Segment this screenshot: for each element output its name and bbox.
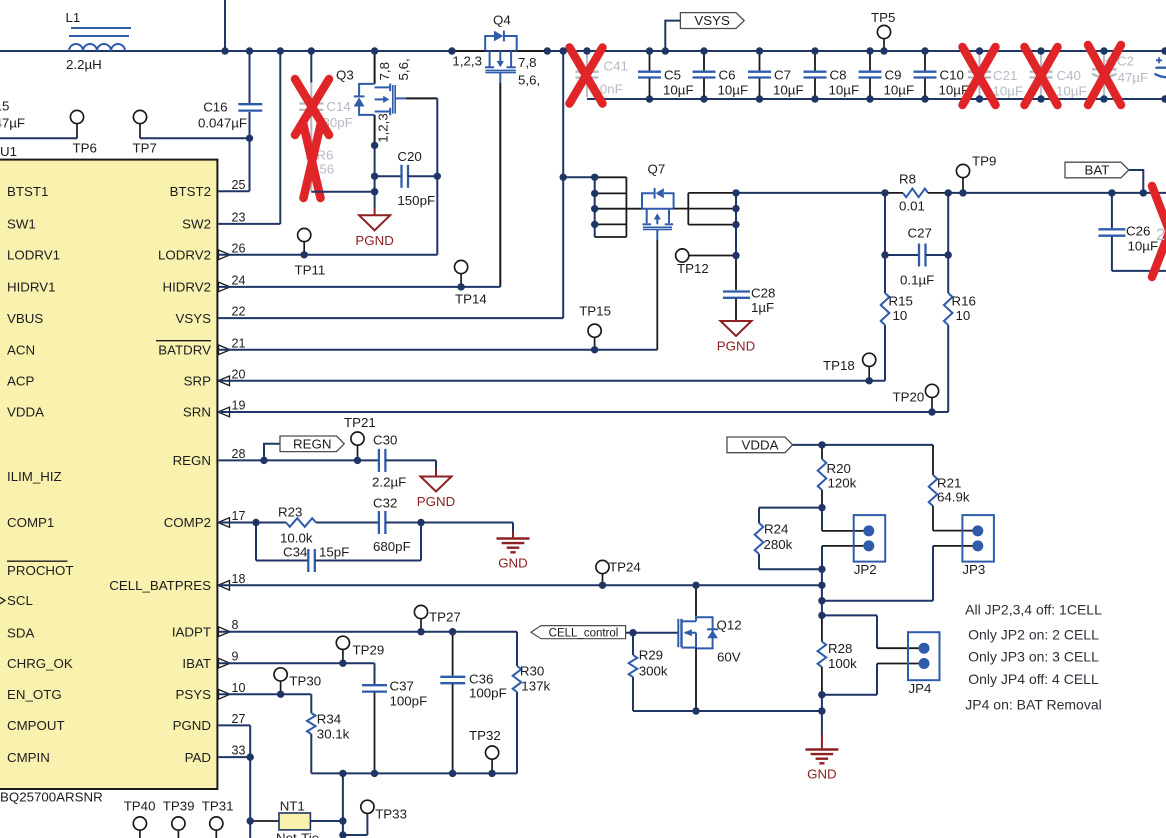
resistor R23 10.0k [278,505,378,546]
svg-text:0.047µF: 0.047µF [0,116,25,131]
svg-text:1µF: 1µF [751,300,774,315]
svg-text:PGND: PGND [355,233,393,248]
svg-text:C15: C15 [0,99,9,114]
svg-text:BATDRV: BATDRV [158,343,211,358]
svg-text:TP6: TP6 [73,141,97,156]
wire: top SW2/inductor bus [0,0,1166,51]
svg-text:2: 2 [1156,225,1165,244]
capacitor C21 10uF (crossed out / DNP) [968,53,1023,99]
transistor Q12 60V [678,585,741,711]
svg-text:Q12: Q12 [717,618,742,633]
svg-text:TP7: TP7 [133,141,157,156]
wire: REGN pin 28 [218,459,378,461]
red X over C14 [295,79,329,135]
svg-text:10µF: 10µF [1056,84,1087,99]
svg-text:SCL: SCL [7,593,33,608]
wire: CELL_control to Q12 gate [626,632,678,634]
wire: BAT net to right edge [948,192,1166,194]
test point TP39 [163,799,195,838]
svg-text:TP5: TP5 [871,10,895,25]
capacitor C40 10uF (crossed out / DNP) [1030,53,1087,99]
jumper JP2 [822,508,885,577]
svg-text:C7: C7 [774,68,791,83]
svg-text:C34: C34 [283,545,307,560]
svg-text:TP11: TP11 [295,263,326,278]
resistor R16 10 [944,255,976,325]
svg-text:GND: GND [498,556,528,571]
svg-text:7,8: 7,8 [518,55,537,70]
svg-text:LODRV1: LODRV1 [7,248,60,263]
test point TP33 [361,800,407,821]
svg-text:GND: GND [807,767,837,782]
svg-text:C30: C30 [373,433,397,448]
svg-text:COMP1: COMP1 [7,515,54,530]
svg-text:TP15: TP15 [579,304,611,319]
resistor R29 300k [629,633,668,711]
test point TP32 [469,728,501,773]
svg-text:TP21: TP21 [344,415,376,430]
wire: IADPT pin 8 [218,631,517,633]
svg-text:BTST2: BTST2 [170,184,211,199]
red X over right-edge cap (partial) [1152,186,1166,277]
note text: cell configuration [965,602,1102,713]
svg-text:PAD: PAD [185,750,211,765]
svg-text:R29: R29 [639,648,663,663]
svg-text:C26: C26 [1126,224,1150,239]
test point TP11 [295,228,326,277]
net flag VSYS [665,13,744,51]
svg-text:TP30: TP30 [289,674,321,689]
svg-text:BAT: BAT [1085,163,1110,178]
svg-text:9: 9 [232,650,239,664]
svg-text:21: 21 [232,336,246,350]
capacitor C26 10uF [1098,193,1166,271]
svg-text:10µF: 10µF [718,83,749,98]
svg-text:TP27: TP27 [429,610,461,625]
test point TP7 [133,110,250,155]
svg-text:C5: C5 [664,68,681,83]
svg-text:24: 24 [232,273,246,287]
svg-text:VDDA: VDDA [742,437,779,452]
svg-text:SDA: SDA [7,626,34,641]
svg-text:C37: C37 [390,679,414,694]
svg-text:C27: C27 [908,226,932,241]
red X over C41 [570,48,603,104]
red X over R6 [304,125,321,198]
test point TP18 [823,353,876,381]
svg-text:SW2: SW2 [182,217,211,232]
svg-text:BTST1: BTST1 [7,184,48,199]
transistor Q3 (low-side FET phase 2) [336,51,437,145]
U1 left-side pin names [0,184,74,765]
svg-text:PGND: PGND [173,718,211,733]
svg-text:ILIM_HIZ: ILIM_HIZ [7,469,62,484]
svg-text:C10: C10 [940,68,964,83]
svg-text:TP29: TP29 [353,643,385,658]
svg-text:TP39: TP39 [163,799,195,814]
test point TP5 [871,10,895,51]
wire: BTST2 pin 25 to C16 to SW bus [218,51,249,191]
svg-text:C6: C6 [719,68,736,83]
test point TP14 [455,260,487,306]
resistor R15 10 [881,255,913,325]
svg-text:SW1: SW1 [7,217,36,232]
resistor R24 280k [755,508,822,570]
wire: Q12 source / R29 bottom rail [633,710,822,712]
svg-text:C8: C8 [830,68,847,83]
svg-text:25: 25 [232,178,246,192]
svg-text:C40: C40 [1057,68,1081,83]
svg-text:ACN: ACN [7,343,35,358]
jumper JP3 [822,515,994,601]
wire: VSYS pin 22 riser to bus [218,51,563,318]
svg-text:0.1µF: 0.1µF [900,273,934,288]
wire: R6 bottom to Q3 source node [311,191,374,193]
test point TP9 [956,154,996,193]
transistor Q7 (BATFET) [642,162,674,350]
capacitor C6 10µF [693,53,749,98]
ground GND (COMP2) [497,523,530,571]
test point TP21 [344,415,376,460]
wire: PSYS pin 10 [218,694,311,713]
svg-text:R8: R8 [899,172,916,187]
svg-text:100pF: 100pF [469,686,507,701]
svg-text:100pF: 100pF [390,694,428,709]
wire: HIDRV2 pin 24 to Q4 gate, with TP14 [218,286,500,288]
svg-text:JP3: JP3 [962,562,985,577]
resistor R34 30.1k [307,712,350,774]
svg-text:All JP2,3,4 off: 1CELL: All JP2,3,4 off: 1CELL [965,602,1102,618]
svg-text:5,6,: 5,6, [396,58,411,80]
wire: BATDRV pin 21 to Q7 gate, with TP15 [218,349,657,351]
svg-text:2.2µF: 2.2µF [372,475,406,490]
svg-text:NT1: NT1 [280,799,305,814]
wire: CELL_BATPRES pin 18 [218,584,822,586]
capacitor C16 0.047uF [198,100,262,131]
capacitor C5 10µF [638,53,694,98]
Q7 source multi-pin bracket (right) [674,193,736,225]
capacitor C32 680pF [373,496,513,555]
op-amp-style IC U1 BQ25700ARSNR (charger IC block) [0,144,217,805]
red X over C21 [963,47,996,105]
wire: PGND pin 27 [218,724,250,726]
capacitor C7 10µF [748,53,804,98]
svg-text:VSYS: VSYS [176,311,212,326]
svg-text:ACP: ACP [7,374,34,389]
capacitor C37 100pF [362,679,427,774]
svg-text:C16: C16 [203,100,227,115]
svg-text:100k: 100k [828,656,857,671]
svg-text:IBAT: IBAT [182,656,211,671]
svg-text:R16: R16 [952,294,976,309]
svg-text:HIDRV1: HIDRV1 [7,280,56,295]
svg-text:27: 27 [232,712,246,726]
svg-text:10µF: 10µF [829,83,860,98]
svg-text:137k: 137k [521,679,550,694]
svg-text:33: 33 [232,744,246,758]
red X over C2 [1088,45,1121,105]
resistor R28 100k [818,615,858,694]
svg-text:CHRG_OK: CHRG_OK [7,656,73,671]
net flag VDDA [727,437,822,453]
svg-text:TP9: TP9 [972,154,996,169]
svg-text:64.9k: 64.9k [937,490,970,505]
wire: bus drop to Q7 drain bracket [563,177,595,237]
wire: Q7 source node vertical [735,193,737,256]
svg-text:C36: C36 [469,672,493,687]
svg-text:CMPIN: CMPIN [7,750,50,765]
svg-text:JP4 on: BAT Removal: JP4 on: BAT Removal [965,697,1101,713]
svg-text:300k: 300k [639,664,668,679]
svg-text:C9: C9 [885,68,902,83]
svg-text:R20: R20 [827,461,851,476]
svg-text:COMP2: COMP2 [164,515,211,530]
capacitor C2 47uF polarized (crossed out / DNP) [1092,53,1148,97]
svg-text:U1: U1 [0,144,17,159]
test point TP6 [0,110,97,155]
svg-text:L1: L1 [66,10,81,25]
wire: VSYS bottom rail [587,98,1166,100]
svg-text:R30: R30 [520,664,544,679]
svg-text:10: 10 [232,681,246,695]
test point TP27 [414,605,460,631]
test point TP12 [676,249,736,276]
red X over C40 [1025,47,1058,105]
svg-text:SRN: SRN [183,405,211,420]
svg-text:10.0k: 10.0k [280,531,313,546]
ground PGND (C28) [721,321,752,336]
svg-text:VDDA: VDDA [7,405,44,420]
svg-text:CMPOUT: CMPOUT [7,718,65,733]
svg-text:20: 20 [232,367,246,381]
svg-text:R21: R21 [937,476,961,491]
svg-text:10µF: 10µF [663,83,694,98]
wire: PGND/PAD column to net-tie [249,725,251,838]
svg-text:JP4: JP4 [909,681,932,696]
svg-text:Q3: Q3 [336,68,354,83]
svg-text:Only JP2 on: 2 CELL: Only JP2 on: 2 CELL [968,627,1099,643]
svg-text:120k: 120k [828,476,857,491]
svg-text:22: 22 [232,305,246,319]
svg-text:TP40: TP40 [124,799,156,814]
wire: SRN pin 19 to R16, with TP20 [218,325,948,412]
svg-text:PGND: PGND [417,494,455,509]
resistor R8 0.01 [885,172,948,214]
wire: SW2 pin 23 riser to bus [218,223,280,225]
capacitor C9 10µF [859,53,915,98]
svg-text:C32: C32 [373,496,397,511]
wire: analog gnd drop to TP33 [343,773,368,835]
wire: VDDA to R21 [822,444,933,446]
test point TP24 [596,560,641,586]
svg-text:28: 28 [232,447,246,461]
wire: Q7 source to R8 [736,192,885,194]
capacitor C8 10µF [804,53,860,98]
net flag REGN [264,436,344,460]
wire: Q3 source node [374,145,376,191]
svg-text:1,2,3: 1,2,3 [452,54,482,69]
svg-text:C20: C20 [397,149,421,164]
resistor R30 137k [513,632,551,774]
svg-text:R15: R15 [889,294,913,309]
capacitor at right edge (partial, polarized) [1155,57,1166,77]
svg-text:LODRV2: LODRV2 [158,248,211,263]
svg-text:REGN: REGN [173,453,211,468]
test point TP31 [202,799,234,838]
svg-text:HIDRV2: HIDRV2 [162,280,211,295]
svg-text:TP33: TP33 [375,807,407,822]
svg-text:IADPT: IADPT [172,624,211,639]
svg-text:TP32: TP32 [469,728,501,743]
svg-text:7,8: 7,8 [377,62,392,81]
svg-text:10: 10 [893,308,908,323]
test point TP15 [579,304,611,350]
svg-text:C41: C41 [604,59,628,74]
svg-text:5,6,: 5,6, [518,73,540,88]
svg-text:C28: C28 [751,286,775,301]
capacitor C10 10µF [914,53,970,98]
svg-text:Only JP4 off: 4 CELL: Only JP4 off: 4 CELL [968,671,1099,687]
test point TP40 [124,799,156,838]
svg-text:CELL_control: CELL_control [549,628,619,640]
capacitor C20 150pF [375,149,438,208]
capacitor C27 0.1uF [885,193,948,288]
svg-text:0.047µF: 0.047µF [198,116,247,131]
ground PGND (REGN/C30) [417,460,455,509]
resistor R21 64.9k [929,445,970,531]
net flag BAT [1065,162,1143,193]
svg-text:BQ25700ARSNR: BQ25700ARSNR [0,790,103,805]
svg-text:680pF: 680pF [373,539,411,554]
svg-text:47µF: 47µF [1118,70,1149,85]
svg-text:R24: R24 [764,522,788,537]
svg-text:R34: R34 [317,712,341,727]
svg-text:R23: R23 [278,505,302,520]
svg-text:280k: 280k [764,537,793,552]
capacitor C15 (partial, cut at left edge) [0,99,25,131]
wire: R28 bottom to GND node [821,695,823,711]
net-tie NT1 [250,799,343,838]
svg-text:Net-Tie: Net-Tie [276,831,319,838]
wire: PAD pin 33 [218,756,250,758]
svg-text:18: 18 [232,572,246,586]
svg-text:2.2µH: 2.2µH [66,57,102,72]
resistor R6 56 (crossed out / DNP) [307,147,334,192]
transistor Q4 (high-side blocking FET) [452,13,540,88]
svg-text:Q4: Q4 [493,13,511,28]
ground PGND (Q3 source) [355,192,393,248]
capacitor C41 10nF (crossed out / DNP) [576,53,628,97]
wire: IBAT pin 9 [218,663,374,684]
svg-text:JP2: JP2 [854,562,877,577]
test point TP20 [893,384,939,412]
svg-text:30.1k: 30.1k [317,727,350,742]
resistor R20 120k [818,445,857,508]
svg-text:17: 17 [232,509,246,523]
svg-text:150pF: 150pF [397,193,435,208]
wire: LODRV2 pin 26 to Q3 gate, with TP11 [218,98,437,254]
svg-text:10µF: 10µF [993,84,1024,99]
svg-text:10µF: 10µF [773,83,804,98]
svg-text:SRP: SRP [184,374,211,389]
wire: JP2/R24/CELL_BATPRES junction column [821,569,823,615]
svg-text:VBUS: VBUS [7,311,43,326]
svg-text:TP20: TP20 [893,390,925,405]
svg-text:R28: R28 [828,641,852,656]
svg-text:TP24: TP24 [609,560,641,575]
net flag CELL_control [531,626,626,640]
capacitor C14 330pF (crossed out / DNP) [299,53,353,147]
jumper JP4 [822,615,940,696]
svg-text:CELL_BATPRES: CELL_BATPRES [109,578,211,593]
svg-text:15pF: 15pF [319,545,349,560]
wire: COMP2 pin 17 [218,522,286,524]
svg-text:10: 10 [956,308,971,323]
svg-text:C14: C14 [326,99,350,114]
svg-text:Q7: Q7 [648,162,666,177]
svg-text:26: 26 [232,241,246,255]
wire: Q4 gate lead down to HIDRV2 [499,83,501,287]
ground GND (cell divider) [805,711,838,782]
svg-text:8: 8 [232,618,239,632]
svg-text:10µF: 10µF [1128,239,1159,254]
capacitor C36 100pF [440,632,506,774]
capacitor C28 1uF [723,256,775,322]
capacitor C34 15pF (parallel branch) [256,523,421,573]
svg-text:0.01: 0.01 [899,199,925,214]
wire: SRP pin 20 to R15, with TP18 [218,325,885,381]
svg-text:60V: 60V [717,650,741,665]
svg-text:23: 23 [232,210,246,224]
svg-text:Only JP3 on: 3 CELL: Only JP3 on: 3 CELL [968,649,1099,665]
svg-text:TP31: TP31 [202,799,234,814]
svg-text:TP12: TP12 [677,261,709,276]
svg-text:PGND: PGND [717,339,755,354]
svg-text:10µF: 10µF [884,83,915,98]
svg-text:REGN: REGN [293,436,331,451]
test point TP29 [336,636,384,663]
wire: IADPT/IBAT/PSYS bottom rail [311,772,517,774]
svg-text:PSYS: PSYS [176,687,212,702]
svg-text:VSYS: VSYS [694,13,730,28]
capacitor C30 2.2uF [372,433,436,490]
test point TP30 [274,668,321,694]
svg-text:PROCHOT: PROCHOT [7,563,74,578]
svg-text:1,2,3: 1,2,3 [376,113,391,143]
svg-text:19: 19 [232,399,246,413]
svg-text:EN_OTG: EN_OTG [7,687,62,702]
U1 right-side pin names, numbers and pin arrows [109,178,245,765]
Q7 drain multi-pin bracket (left) [595,177,642,237]
svg-text:C21: C21 [993,68,1017,83]
svg-text:TP18: TP18 [823,358,855,373]
svg-text:TP14: TP14 [455,292,487,307]
inductor L1 2.2uH [66,10,132,72]
wire: SW2 vertical [279,51,281,224]
